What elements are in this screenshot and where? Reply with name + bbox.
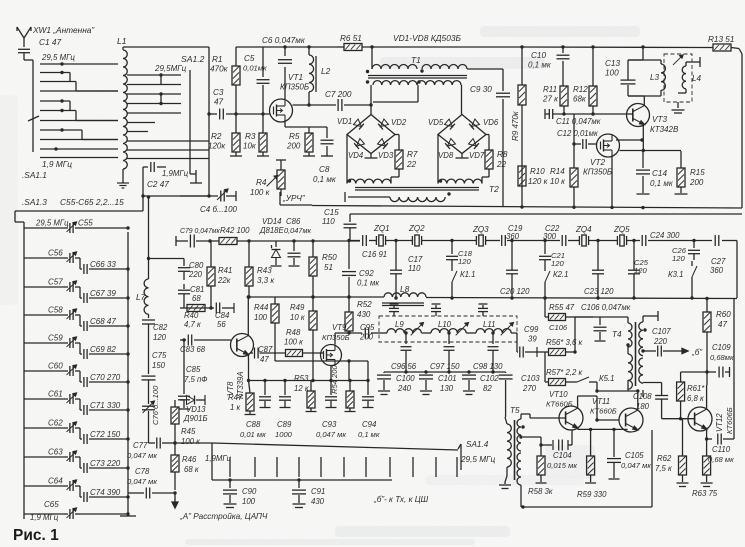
bottom loop wire: [521, 430, 652, 507]
capacitor C82: [142, 320, 155, 374]
wire osc line: [180, 195, 218, 197]
label C61: [48, 390, 63, 399]
capacitor C87: [255, 348, 259, 359]
wire VT3 base: [627, 113, 633, 115]
junction L2 bottom: [307, 103, 310, 106]
label R40 4.7k: [184, 311, 201, 329]
label VT12 rotated: [715, 407, 734, 434]
diode VD7: [469, 139, 479, 149]
transformer T4 primary: [575, 317, 632, 391]
label VD1: [337, 117, 352, 126]
capacitor C6: [278, 47, 292, 99]
label SA1.4: [466, 440, 489, 449]
wire gate rail y114: [209, 113, 270, 115]
transistor VT9 KP350B: [321, 345, 342, 366]
label K5.1: [599, 374, 614, 383]
label R52 430: [357, 300, 372, 319]
resistor R57: [545, 379, 571, 386]
trimmer capacitor C56: [24, 252, 130, 274]
wire VT2 source down: [611, 157, 613, 207]
label C24 300: [650, 231, 680, 240]
zener VD14: [271, 241, 282, 266]
wire L1 top to SA1.2 bus: [123, 47, 209, 50]
capacitor C84: [216, 303, 234, 314]
label VT1: [280, 73, 309, 92]
label R7 22: [406, 150, 418, 169]
capacitor C91: [292, 480, 306, 508]
diode VD8: [445, 139, 455, 149]
label C84 56: [215, 311, 230, 329]
inductor L3: [628, 60, 665, 96]
label R14 10k: [550, 167, 566, 186]
capacitor C67 39: [90, 289, 116, 298]
URCh bracket: [280, 192, 312, 205]
bus SA1.2 vertical: [208, 47, 210, 196]
label C91 430: [311, 487, 325, 506]
wire VT12 base: [662, 417, 696, 420]
wire R56 left: [537, 352, 545, 382]
label C93: [316, 420, 346, 439]
resistor R44: [271, 297, 279, 361]
label SA1.1: [22, 170, 47, 180]
capacitor C18 branch: [446, 239, 458, 266]
trim arrow L11: [501, 323, 514, 336]
junction osc: [207, 194, 210, 197]
dashed filter box: [379, 316, 517, 342]
label VD1-VD8: [393, 33, 462, 43]
capacitor C22: [562, 235, 566, 246]
inductor L8: [382, 293, 426, 306]
label C18 120: [458, 249, 473, 266]
label R63 75: [692, 489, 718, 498]
label VT2: [583, 158, 612, 177]
label R12 68k: [573, 85, 588, 104]
resistor R15: [675, 151, 688, 194]
capacitor C103: [499, 372, 513, 417]
resistor R13: [702, 44, 742, 208]
capacitor C74 390: [90, 488, 121, 497]
label VD3: [378, 151, 394, 160]
label R15 200: [689, 168, 705, 187]
capacitor C25 branch: [628, 239, 640, 300]
filter junction dots: [404, 331, 494, 334]
label C101 130: [438, 374, 457, 393]
label ZQ2: [408, 224, 425, 233]
label C7 200: [325, 90, 352, 99]
label C55: [78, 219, 93, 228]
capacitor C73 220: [90, 459, 121, 468]
wire VT9 drain: [335, 333, 362, 345]
label R58 3k: [528, 487, 553, 496]
label C25 120: [634, 258, 649, 275]
label b to Tx: [373, 495, 429, 504]
L4 output tick: [699, 57, 701, 67]
label R5 200: [286, 132, 301, 151]
relay contact K5.1: [571, 377, 599, 393]
label R45 100k: [181, 427, 200, 446]
label R50 51: [322, 253, 337, 272]
trimmer capacitor C59: [24, 337, 130, 359]
label L11: [483, 320, 495, 329]
label R6 51: [340, 34, 362, 43]
capacitor C14: [636, 151, 650, 194]
label VD13: [183, 405, 208, 423]
label C64: [48, 477, 63, 486]
label VT8 rotated: [226, 371, 245, 399]
inductor L1: [123, 50, 127, 169]
SA1.4 arm: [458, 444, 461, 470]
wire VT9 gate: [321, 352, 323, 354]
wire VT12 collector: [706, 385, 708, 409]
label L4: [692, 74, 702, 83]
crystal ZQ2: [412, 235, 421, 246]
resistor R45: [171, 400, 179, 443]
capacitor C104: [541, 429, 572, 450]
transistor VT12 KT606B: [688, 407, 712, 431]
capacitor C24: [642, 235, 646, 246]
label C107 220: [652, 327, 671, 346]
wire T5 sec top to VT10 base: [521, 414, 566, 418]
wire top rail left: [236, 46, 336, 48]
label C10: [528, 51, 552, 70]
label C105: [621, 451, 651, 470]
wire C7 to bridge tap: [0, 0, 1, 1]
label R1 470k: [210, 55, 229, 74]
T5 core: [514, 420, 516, 480]
resistor R63: [701, 439, 713, 487]
bridge1 top wire: [369, 85, 372, 115]
capacitor C92: [342, 239, 356, 297]
svg-text:Рис. 1: Рис. 1: [13, 527, 59, 544]
coil taps to SA1.2: [127, 73, 209, 158]
crystal chain wire: [350, 241, 737, 299]
diode VD3: [378, 139, 388, 149]
label L1: [117, 36, 127, 46]
junction dots y114: [207, 112, 264, 115]
label K3.1: [668, 270, 683, 279]
capacitor C100: [377, 372, 391, 395]
capacitor C101: [419, 370, 433, 394]
relay contact K1.1: [450, 266, 457, 300]
label 1.9MHz mid: [205, 454, 232, 463]
label C26 120: [672, 246, 687, 263]
capacitor C106: [575, 316, 593, 318]
label VD14: [259, 217, 284, 235]
T1 core lines: [368, 76, 467, 79]
label C106 top: [581, 303, 631, 312]
resistor R6: [336, 44, 702, 51]
capacitor C83: [180, 335, 231, 346]
resistor R61: [677, 372, 707, 419]
wire VT3 collector: [628, 85, 644, 106]
label R47 1k: [228, 393, 243, 412]
resistor R43: [245, 241, 253, 299]
resistor R2: [230, 114, 242, 156]
capacitor C102: [462, 370, 476, 394]
wire emitter row right: [348, 379, 351, 382]
resistor R58: [536, 443, 547, 483]
diode VD6: [469, 119, 479, 129]
label R41 22k: [217, 266, 232, 285]
diode VD13: [180, 395, 205, 405]
transistor VT3 KT342V: [627, 104, 650, 127]
transformer T1 bottom winding: [373, 81, 461, 85]
label VT11: [590, 397, 617, 416]
transformer T1 top winding: [372, 65, 467, 70]
bridge2 top wire: [461, 85, 463, 115]
label 1,9 MHz bottom: [30, 513, 59, 522]
trim arrow L9: [411, 323, 424, 336]
resistor R14: [570, 144, 578, 207]
label C15 110: [322, 208, 339, 226]
label ZQ3: [472, 225, 489, 234]
crystal ZQ3: [476, 235, 485, 246]
label L7: [136, 292, 146, 302]
label C65: [44, 500, 59, 509]
label L8: [400, 284, 410, 294]
label C80 220: [188, 261, 204, 279]
crystal ZQ5: [617, 235, 626, 246]
wire osc left link: [173, 441, 212, 444]
junction bus dots: [520, 205, 644, 209]
transformer T4 secondary: [639, 316, 662, 383]
label R8 22: [496, 150, 508, 169]
capacitor C86: [288, 239, 301, 266]
SA1.2 arm bottom tick: [190, 179, 202, 183]
diode VD5: [445, 119, 455, 129]
label VD2: [391, 118, 407, 127]
resistor R56: [545, 349, 577, 356]
resistor R62: [677, 419, 689, 487]
wire VT11 collector up: [597, 389, 640, 409]
label C56: [48, 249, 63, 258]
capacitor C9: [496, 93, 510, 207]
capacitor C94: [362, 361, 374, 408]
resistor R50: [309, 239, 317, 298]
diode VD1: [354, 119, 364, 129]
bridge1 winding: [347, 169, 399, 184]
bridge1 bottom ground: [365, 154, 378, 159]
bridge1 left down: [346, 135, 348, 184]
wire emitter row y380: [247, 379, 368, 382]
label VD4: [348, 151, 364, 160]
label R3 10k: [243, 132, 257, 151]
label C100 240: [396, 374, 415, 393]
resistor R7: [395, 135, 403, 170]
label T4: [612, 330, 622, 339]
label C16 91: [362, 250, 387, 259]
capacitor C107: [658, 346, 676, 357]
label L3: [650, 73, 660, 82]
junction C10 top: [561, 45, 564, 48]
capacitor C108: [655, 383, 668, 419]
SA1.4 bus: [212, 443, 392, 482]
wire VT11 emitter: [0, 0, 1, 1]
IF rail right: [426, 298, 737, 299]
label C96 56: [391, 362, 417, 371]
capacitor C68 47: [90, 317, 116, 326]
label C90 100: [242, 487, 257, 506]
label R13 51: [708, 35, 734, 44]
trimmer capacitor C63: [24, 451, 130, 473]
wire VT1 drain: [0, 0, 1, 1]
capacitor C26 branch: [688, 239, 700, 260]
label 29,5MHz SA1.2: [154, 64, 187, 73]
trimmer capacitor C61: [24, 393, 130, 415]
capacitor C81: [178, 284, 190, 308]
capacitor C85: [178, 338, 190, 409]
wire VT8 collector: [247, 295, 250, 335]
wire T2 left: [345, 192, 390, 202]
label C92: [357, 269, 379, 288]
T4 sec bottom: [642, 390, 644, 397]
label R61 wire: [0, 0, 1, 1]
relay contact K2.1: [543, 266, 550, 300]
T1 bottom dot: [366, 70, 421, 84]
label C60: [48, 362, 63, 371]
inductor L10: [421, 329, 466, 333]
transistor VT11 KT660B: [619, 408, 643, 432]
SA1.4 comb ticks: [230, 457, 457, 477]
rotated label R54 200: [330, 365, 339, 394]
T5 ground: [499, 482, 511, 489]
capacitor C15: [344, 224, 357, 240]
label VT10: [546, 390, 573, 409]
label C82 120: [153, 323, 168, 342]
label C59: [48, 334, 63, 343]
label C108 180: [633, 392, 652, 411]
label C8: [313, 165, 337, 184]
SA1.3 header wire: [15, 211, 143, 519]
label C6: [262, 36, 306, 45]
junction L2 top: [307, 45, 310, 48]
potentiometer R4: [267, 160, 286, 196]
SA1.4 wire: [212, 443, 458, 450]
resistor R54: [345, 381, 356, 412]
diode VD2: [378, 119, 388, 129]
capacitor C99: [520, 347, 537, 358]
wire T1 top left: [371, 47, 373, 69]
label R57 2.2k: [546, 368, 583, 377]
mixer bridge VD5-VD8 frame: [438, 115, 486, 154]
resistor R3: [257, 114, 269, 156]
bridge2 bottom ground: [456, 154, 469, 159]
capacitor C8: [309, 127, 334, 156]
capacitor C95: [365, 328, 368, 339]
label C17 110: [408, 255, 423, 273]
trim arrow L3L4: [673, 55, 683, 65]
resistor R41: [207, 241, 215, 310]
label A rasstroika: [179, 512, 268, 521]
label R9 470k rotated: [511, 110, 520, 141]
label R4 100k: [250, 178, 271, 197]
wire VT12 emitter: [705, 429, 708, 441]
capacitor C97: [444, 333, 455, 372]
label C19 360: [506, 224, 523, 241]
trimmer capacitor C65: [24, 508, 130, 519]
bus line B y214: [350, 214, 742, 222]
resistor R11: [560, 86, 568, 114]
label XW1 Antenna: [32, 25, 95, 35]
resistor R46: [171, 443, 179, 490]
wire C76 top: [0, 0, 1, 1]
trimmer capacitor C62: [24, 422, 130, 444]
label C11: [556, 117, 601, 126]
label R56 3.6k: [546, 338, 583, 347]
label 29.5MHz SA14: [460, 455, 495, 464]
label T1: [411, 55, 421, 65]
resistor R47: [245, 393, 256, 415]
label L10: [438, 320, 452, 329]
junction R9 top: [520, 45, 523, 48]
capacitor C79: [190, 235, 194, 248]
wire antenna down: [24, 53, 33, 152]
capacitor C93: [325, 381, 337, 408]
trimmer capacitor C60: [24, 365, 130, 387]
label C12: [557, 129, 598, 138]
band selector stair wires: [40, 62, 118, 157]
inductor L9: [387, 329, 421, 333]
capacitor C13: [621, 45, 645, 84]
resistor R40: [187, 305, 205, 312]
trimmer capacitor C64: [24, 480, 130, 502]
label C89 1000: [275, 420, 293, 439]
resistor R9: [518, 47, 526, 207]
label C21 120: [551, 251, 565, 268]
capacitor C66 33: [90, 260, 116, 269]
label C57: [48, 278, 63, 287]
label C76 rotated: [151, 385, 160, 425]
wire VT1 drain to mixer: [293, 104, 337, 106]
ground L3L4 box: [672, 102, 685, 113]
label R59 330: [577, 490, 607, 499]
wire y308 row: [180, 307, 234, 309]
label C27 360: [710, 257, 726, 275]
capacitor C16: [363, 235, 367, 246]
label K1.1: [460, 270, 475, 279]
capacitor C20 branch: [506, 239, 518, 300]
inductor L2: [309, 47, 316, 105]
capacitor C78: [128, 488, 177, 499]
trimmer capacitor C55: [24, 222, 130, 233]
wire T4 sec mid: [643, 350, 656, 352]
label VD6: [483, 118, 499, 127]
transistor VT2 KP350B: [597, 134, 620, 157]
capacitor C75: [142, 376, 156, 404]
resistor R60: [703, 299, 711, 346]
inductor L4: [678, 62, 700, 93]
label SA1.2: [181, 54, 205, 64]
variable capacitor C4: [217, 189, 236, 201]
label C2 47: [147, 180, 169, 189]
wire R48 link: [250, 352, 321, 354]
SA1.1 wiper tick: [28, 116, 39, 121]
inductor L7: [144, 195, 150, 318]
junction C6 top: [283, 45, 286, 48]
label C77: [127, 441, 157, 460]
capacitor C3: [220, 109, 224, 120]
label C20 120: [500, 287, 530, 296]
capacitor C11: [549, 109, 552, 119]
capacitor C69 82: [90, 345, 116, 354]
label L2: [321, 66, 331, 76]
inductor L11: [466, 329, 511, 333]
wire VT1 source-drain bottom: [285, 122, 309, 127]
label VD8: [438, 151, 454, 160]
capacitor C19: [502, 235, 506, 246]
capacitor C23 branch: [592, 239, 604, 300]
T1 center tap dot: [420, 69, 423, 72]
